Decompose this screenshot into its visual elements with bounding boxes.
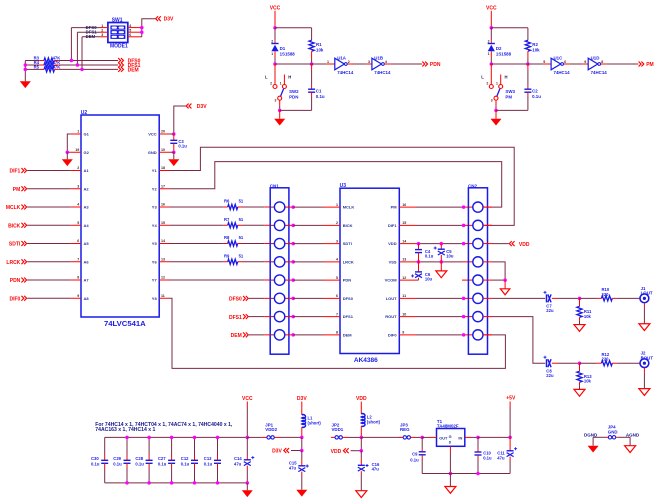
svg-text:H: H xyxy=(288,74,291,79)
junction xyxy=(526,62,530,66)
svg-text:18: 18 xyxy=(161,166,165,170)
junction xyxy=(278,109,282,113)
svg-text:DIF1: DIF1 xyxy=(388,223,397,228)
wire xyxy=(483,243,492,245)
svg-text:C13: C13 xyxy=(204,456,212,461)
capacitor C11 47u xyxy=(509,437,511,450)
capacitor C5 10u xyxy=(440,244,442,250)
wire xyxy=(483,261,492,263)
capacitor C16 47u xyxy=(360,451,362,459)
svg-text:74LVC541A: 74LVC541A xyxy=(104,319,146,328)
resistor R7 51 xyxy=(170,224,224,226)
svg-text:OUT: OUT xyxy=(439,435,448,440)
svg-text:4: 4 xyxy=(385,60,387,64)
capacitor C14 47u xyxy=(246,437,248,456)
wire xyxy=(170,133,174,135)
svg-text:L: L xyxy=(265,74,268,79)
U2 pin 14 Y5 xyxy=(159,243,169,245)
U2 pin 10 GND xyxy=(159,151,169,153)
ground xyxy=(449,474,451,487)
wire xyxy=(449,446,451,452)
ground xyxy=(504,280,506,289)
svg-text:D3V: D3V xyxy=(272,449,282,455)
resistor R2 10k xyxy=(527,28,529,40)
svg-text:2: 2 xyxy=(271,39,273,43)
junction xyxy=(417,260,421,264)
wire xyxy=(483,224,492,226)
svg-text:3: 3 xyxy=(368,60,370,64)
svg-text:7: 7 xyxy=(77,257,79,261)
power port VDD xyxy=(492,243,509,245)
CN1 pin 8 xyxy=(270,334,274,336)
U2 pin 2 A1 xyxy=(71,170,81,172)
junction xyxy=(578,361,582,365)
junction xyxy=(494,109,498,113)
svg-text:C9: C9 xyxy=(412,452,418,457)
svg-text:Y3: Y3 xyxy=(152,205,158,210)
svg-text:10u: 10u xyxy=(446,253,454,258)
U3 pin 1 MCLK xyxy=(324,206,341,208)
svg-text:2: 2 xyxy=(348,60,350,64)
wire xyxy=(170,147,515,225)
capacitor C15 47u xyxy=(301,451,303,460)
svg-text:10: 10 xyxy=(402,312,406,316)
resistor R6 51 xyxy=(170,206,224,208)
svg-text:0.1u: 0.1u xyxy=(425,253,434,258)
svg-text:LOUT: LOUT xyxy=(386,296,397,301)
U3 pin 11 LOUT xyxy=(399,297,416,299)
svg-text:DIF1: DIF1 xyxy=(9,169,20,175)
svg-text:13: 13 xyxy=(161,257,165,261)
svg-text:22u: 22u xyxy=(546,308,554,313)
junction xyxy=(273,62,277,66)
junction xyxy=(147,436,151,440)
wire xyxy=(242,206,264,208)
svg-text:2: 2 xyxy=(270,82,272,86)
capacitor C1 0.1u xyxy=(311,64,313,70)
svg-text:C29: C29 xyxy=(113,456,121,461)
junction xyxy=(246,481,250,485)
svg-text:7: 7 xyxy=(336,312,338,316)
wire xyxy=(416,206,462,208)
junction xyxy=(170,481,174,485)
svg-text:5: 5 xyxy=(336,276,338,280)
wire xyxy=(293,261,323,263)
svg-text:20: 20 xyxy=(161,130,165,134)
U2 pin 13 Y6 xyxy=(159,261,169,263)
wire xyxy=(360,437,362,450)
wire xyxy=(275,63,312,65)
capacitor C3 0.1u xyxy=(173,134,175,140)
svg-text:GND: GND xyxy=(148,150,157,155)
port DEM xyxy=(118,67,123,72)
svg-text:LRCK: LRCK xyxy=(343,259,354,264)
svg-text:PDN: PDN xyxy=(289,95,298,100)
svg-text:0.1u: 0.1u xyxy=(181,461,190,466)
svg-text:SDTI: SDTI xyxy=(343,241,352,246)
svg-text:LRCK: LRCK xyxy=(6,260,20,266)
wire xyxy=(416,224,462,226)
wire xyxy=(293,297,323,299)
wire xyxy=(462,279,473,281)
svg-text:C2: C2 xyxy=(532,89,538,94)
svg-text:74HC14: 74HC14 xyxy=(374,70,391,75)
svg-text:G2: G2 xyxy=(84,150,90,155)
junction xyxy=(462,242,466,246)
wire xyxy=(249,316,264,318)
svg-text:220: 220 xyxy=(602,357,610,362)
capacitor C29 0.1u xyxy=(126,437,128,455)
svg-text:C28: C28 xyxy=(135,456,143,461)
wire xyxy=(617,362,641,364)
svg-text:VDD2: VDD2 xyxy=(265,427,277,432)
svg-text:51: 51 xyxy=(239,217,244,222)
junction xyxy=(216,436,220,440)
U3 pin 9 DIF0 xyxy=(399,334,416,336)
junction xyxy=(508,436,512,440)
svg-text:0.1u: 0.1u xyxy=(316,94,325,99)
junction xyxy=(440,260,444,264)
svg-text:1S1588: 1S1588 xyxy=(496,51,512,56)
ground xyxy=(643,368,645,373)
svg-text:DFS1: DFS1 xyxy=(343,314,354,319)
CN1 pin 3 xyxy=(270,243,274,245)
svg-text:R8: R8 xyxy=(224,235,230,240)
wire xyxy=(142,19,155,37)
junction xyxy=(193,436,197,440)
ground xyxy=(20,81,31,88)
junction xyxy=(140,26,144,30)
svg-text:Y2: Y2 xyxy=(152,186,158,191)
capacitor C10 0.1u xyxy=(477,437,479,448)
svg-text:51: 51 xyxy=(239,253,244,258)
wire xyxy=(492,262,505,280)
svg-text:6: 6 xyxy=(564,60,566,64)
svg-text:R7: R7 xyxy=(224,217,230,222)
svg-text:1: 1 xyxy=(77,130,79,134)
U2 pin 1 G1 xyxy=(71,133,81,135)
svg-text:5: 5 xyxy=(77,221,79,225)
svg-text:PDN: PDN xyxy=(10,278,21,284)
junction xyxy=(291,260,295,264)
junction xyxy=(273,26,277,30)
svg-text:51: 51 xyxy=(239,199,244,204)
svg-text:0.1u: 0.1u xyxy=(158,461,167,466)
CN1 pin 6 xyxy=(270,297,274,299)
svg-text:4: 4 xyxy=(336,258,338,262)
wire xyxy=(170,151,174,153)
junction xyxy=(170,436,174,440)
junction xyxy=(476,436,480,440)
ground xyxy=(356,491,367,498)
capacitor C8 22u xyxy=(546,359,548,367)
svg-text:74HC14: 74HC14 xyxy=(591,70,608,75)
svg-text:2: 2 xyxy=(77,166,79,170)
svg-text:6: 6 xyxy=(336,294,338,298)
wire xyxy=(275,27,312,29)
junction xyxy=(80,68,84,72)
svg-text:IN: IN xyxy=(458,435,462,440)
wire xyxy=(59,64,118,66)
wire xyxy=(67,134,71,152)
junction xyxy=(291,297,295,301)
wire xyxy=(544,362,546,364)
wire xyxy=(249,297,264,299)
wire xyxy=(416,334,462,336)
U2 pin 11 Y8 xyxy=(159,297,169,299)
wire xyxy=(242,224,264,226)
svg-text:A5: A5 xyxy=(84,241,90,246)
svg-text:Y6: Y6 xyxy=(152,259,158,264)
svg-text:4: 4 xyxy=(77,203,79,207)
svg-text:74AC163 x 1, 74HC14 x 1: 74AC163 x 1, 74HC14 x 1 xyxy=(95,427,155,433)
svg-text:C14: C14 xyxy=(234,456,242,461)
svg-text:G1: G1 xyxy=(84,132,90,137)
wire xyxy=(348,63,354,65)
CN2 pin 8 xyxy=(473,334,475,336)
U3 pin 13 VSS xyxy=(399,261,416,263)
svg-text:12: 12 xyxy=(402,276,406,280)
junction xyxy=(462,224,466,228)
wire xyxy=(70,28,72,61)
junction xyxy=(125,436,129,440)
svg-text:PM: PM xyxy=(505,95,512,100)
junction xyxy=(140,30,144,34)
wire xyxy=(361,436,401,438)
wire xyxy=(492,279,505,281)
svg-text:8: 8 xyxy=(77,276,79,280)
wire xyxy=(293,243,323,245)
svg-text:R1: R1 xyxy=(316,42,322,47)
svg-text:DEM: DEM xyxy=(86,34,96,39)
U2 pin 18 Y1 xyxy=(159,170,169,172)
CN2 pin 2 xyxy=(473,224,475,226)
capacitor C27 0.1u xyxy=(171,437,173,455)
U3 pin 14 VDD xyxy=(399,243,416,245)
wire xyxy=(465,436,472,438)
svg-text:Y1: Y1 xyxy=(152,168,158,173)
junction xyxy=(291,242,295,246)
net alias DFS1 xyxy=(77,31,100,33)
svg-text:5: 5 xyxy=(543,60,545,64)
capacitor C6 10u xyxy=(418,262,420,272)
U2 pin 19 G2 xyxy=(71,151,81,153)
U2 pin 15 Y4 xyxy=(159,224,169,226)
jack J2 ROUT xyxy=(640,359,649,368)
wire xyxy=(492,297,545,299)
svg-text:19: 19 xyxy=(75,148,79,152)
U2 pin 4 A3 xyxy=(71,206,81,208)
ground xyxy=(574,325,585,332)
svg-text:16: 16 xyxy=(402,203,406,207)
ground xyxy=(173,152,175,159)
svg-text:15: 15 xyxy=(402,221,406,225)
wire xyxy=(27,224,71,226)
wire xyxy=(242,261,264,263)
junction xyxy=(24,63,28,67)
svg-text:14: 14 xyxy=(402,239,406,243)
junction xyxy=(420,436,424,440)
resistor R11 10k xyxy=(579,298,581,306)
wire xyxy=(593,436,606,438)
wire xyxy=(483,206,492,208)
wire xyxy=(416,316,462,318)
svg-text:A4: A4 xyxy=(84,223,90,228)
capacitor C4 0.1u xyxy=(418,244,420,250)
junction xyxy=(291,315,295,319)
wire xyxy=(411,436,416,438)
U2 pin 12 Y7 xyxy=(159,279,169,281)
wire xyxy=(170,162,502,208)
wire xyxy=(385,63,391,65)
svg-text:22u: 22u xyxy=(546,373,554,378)
svg-text:REG: REG xyxy=(400,427,410,432)
svg-text:11: 11 xyxy=(402,294,406,298)
ground xyxy=(495,110,497,118)
svg-text:D3V: D3V xyxy=(197,104,207,110)
diode D1 1S1588 xyxy=(274,28,276,40)
U3 pin 2 BICK xyxy=(324,224,341,226)
inverter U1C 74HC14 xyxy=(551,58,561,70)
svg-text:SDTI: SDTI xyxy=(9,242,21,248)
CN2 pin 6 xyxy=(473,297,475,299)
net alias DEM xyxy=(82,36,100,38)
wire xyxy=(351,450,362,452)
wire xyxy=(558,362,580,364)
junction xyxy=(440,242,444,246)
junction xyxy=(462,205,466,209)
junction xyxy=(172,151,176,155)
svg-text:DIF0: DIF0 xyxy=(388,332,397,337)
port DFS0 xyxy=(118,58,123,63)
wire xyxy=(174,106,186,134)
junction xyxy=(476,472,480,476)
ground xyxy=(279,110,281,118)
svg-text:C30: C30 xyxy=(91,456,99,461)
svg-text:74HC14: 74HC14 xyxy=(554,70,571,75)
inductor L1 (short) xyxy=(302,415,306,428)
U2 pin 20 VCC xyxy=(159,133,169,135)
svg-text:SW2: SW2 xyxy=(289,89,299,94)
svg-text:0.1u: 0.1u xyxy=(91,461,100,466)
svg-text:1: 1 xyxy=(327,60,329,64)
svg-text:MCLK: MCLK xyxy=(343,205,355,210)
wire xyxy=(24,61,26,82)
wire xyxy=(492,317,545,364)
wire xyxy=(27,279,71,281)
svg-text:DEM: DEM xyxy=(343,332,353,337)
junction xyxy=(490,62,494,66)
wire xyxy=(558,297,580,299)
svg-text:A1: A1 xyxy=(84,168,90,173)
svg-text:0.1u: 0.1u xyxy=(135,461,144,466)
svg-text:A2: A2 xyxy=(84,186,90,191)
inductor L2 (short) xyxy=(361,414,365,427)
junction xyxy=(66,151,70,155)
svg-text:220: 220 xyxy=(602,292,610,297)
wire xyxy=(616,436,618,438)
wire xyxy=(491,27,528,29)
svg-text:PDN: PDN xyxy=(343,278,352,283)
wire xyxy=(496,109,528,111)
svg-text:U1A: U1A xyxy=(337,55,347,60)
svg-text:DFS0: DFS0 xyxy=(229,297,242,303)
svg-text:9: 9 xyxy=(402,331,404,335)
svg-text:0.1u: 0.1u xyxy=(532,94,541,99)
wire xyxy=(422,436,429,438)
wire xyxy=(483,334,492,336)
svg-text:VCC: VCC xyxy=(242,396,253,402)
wire xyxy=(27,170,71,172)
U3 pin 15 DIF1 xyxy=(399,224,416,226)
svg-text:BICK: BICK xyxy=(343,223,353,228)
wire xyxy=(76,32,78,65)
CN1 pin 1 xyxy=(270,206,274,208)
resistor R5 47K xyxy=(25,68,39,70)
junction xyxy=(462,333,466,337)
svg-text:A3: A3 xyxy=(84,205,90,210)
svg-text:9: 9 xyxy=(584,60,586,64)
svg-text:PM: PM xyxy=(646,62,654,68)
junction xyxy=(291,333,295,337)
junction xyxy=(193,481,197,485)
junction xyxy=(310,62,314,66)
junction xyxy=(70,59,74,63)
svg-text:14: 14 xyxy=(161,239,165,243)
svg-text:0.1u: 0.1u xyxy=(178,144,187,149)
jack J1 LOUT xyxy=(640,294,649,303)
ground xyxy=(296,490,307,497)
svg-text:1: 1 xyxy=(336,203,338,207)
svg-text:U1C: U1C xyxy=(554,55,564,60)
junction xyxy=(449,472,453,476)
svg-text:3: 3 xyxy=(275,99,277,103)
wire xyxy=(483,297,492,299)
svg-text:Y4: Y4 xyxy=(152,223,158,228)
svg-text:GND: GND xyxy=(608,429,618,434)
U3 pin 12 VCOM xyxy=(399,279,416,281)
svg-text:VDD: VDD xyxy=(388,241,397,246)
U3 pin 8 DEM xyxy=(324,334,341,336)
wire xyxy=(293,334,323,336)
svg-text:10u: 10u xyxy=(425,277,433,282)
svg-text:VDD1: VDD1 xyxy=(332,427,344,432)
port DFS1 xyxy=(118,63,123,68)
svg-text:10k: 10k xyxy=(532,48,540,53)
svg-text:D3V: D3V xyxy=(297,396,307,402)
switch SW3 xyxy=(490,64,492,84)
junction xyxy=(172,132,176,136)
wire xyxy=(105,482,248,484)
U2 pin 7 A6 xyxy=(71,261,81,263)
power port D3V xyxy=(186,104,191,109)
svg-text:ROUT: ROUT xyxy=(641,355,654,360)
svg-text:47u: 47u xyxy=(372,466,380,471)
svg-text:11: 11 xyxy=(161,294,165,298)
svg-text:+5V: +5V xyxy=(506,396,516,402)
CN2 pin 1 xyxy=(473,206,475,208)
resistor R8 51 xyxy=(170,243,224,245)
svg-text:MCLK: MCLK xyxy=(6,205,21,211)
svg-text:R5: R5 xyxy=(34,64,40,69)
capacitor C12 0.1u xyxy=(194,437,196,455)
svg-text:H: H xyxy=(505,74,508,79)
svg-text:BICK: BICK xyxy=(8,223,21,229)
wire xyxy=(27,188,71,190)
junction xyxy=(462,315,466,319)
svg-text:VCC: VCC xyxy=(148,132,157,137)
svg-text:Y8: Y8 xyxy=(152,296,158,301)
